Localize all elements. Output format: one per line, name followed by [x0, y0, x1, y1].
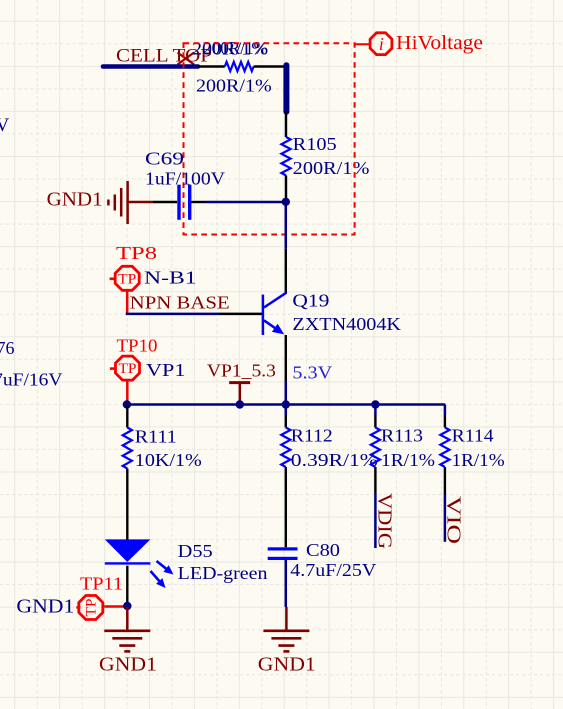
svg-text:200R/1%: 200R/1% [196, 76, 272, 96]
capacitor C69 [177, 185, 191, 220]
wire TP11 stem [104, 605, 125, 608]
LED D55 [105, 539, 151, 563]
label Q19 [292, 291, 329, 311]
label R113 [381, 426, 423, 446]
testpoint TP11 [76, 595, 102, 619]
ground GND1 below C80 [263, 607, 309, 651]
transistor Q19 [263, 293, 287, 335]
label R111 [135, 426, 177, 446]
value (clipped) 4.7uF/16V [0, 370, 63, 390]
svg-text:TP11: TP11 [80, 574, 123, 594]
no-ERC marker [178, 53, 195, 65]
label D55 value [178, 563, 268, 583]
wire VDIG [374, 493, 377, 548]
designator (clipped) C76 [0, 338, 15, 358]
pin R111.1 [126, 406, 128, 428]
resistor R113 [371, 428, 380, 468]
label R113 value [381, 450, 435, 470]
resistor R114 [440, 428, 449, 468]
compile-mask dashed box [184, 43, 355, 234]
node R105-C69 [282, 198, 290, 206]
power port VP1_5.3 bar [229, 383, 250, 404]
svg-text:200R/1%: 200R/1% [203, 38, 268, 58]
svg-text:R105: R105 [293, 134, 337, 154]
label R104 value overlap b [203, 38, 268, 58]
pin R114.2 [444, 467, 446, 494]
node rail-R111 [123, 400, 131, 408]
power port VP1_5.3 text [207, 361, 276, 381]
svg-text:LED-green: LED-green [178, 563, 268, 583]
svg-text:VIO: VIO [443, 496, 465, 544]
svg-text:1R/1%: 1R/1% [381, 450, 435, 470]
svg-text:VP1: VP1 [146, 360, 186, 380]
node rail-R112 [282, 400, 290, 408]
pin Q19 base [219, 313, 263, 316]
svg-text:GND1: GND1 [16, 596, 74, 618]
svg-text:C69: C69 [145, 149, 184, 169]
label R114 [452, 426, 494, 446]
svg-text:NPN BASE: NPN BASE [130, 293, 230, 313]
svg-text:5.3V: 5.3V [292, 363, 332, 383]
svg-text:1uF/100V: 1uF/100V [145, 169, 225, 189]
net label 5.3V [292, 363, 332, 383]
svg-text:GND1: GND1 [99, 653, 157, 675]
svg-text:TP: TP [118, 271, 136, 287]
label Q19 value [292, 314, 401, 334]
wire rail to R113 [374, 406, 377, 415]
svg-text:4.7uF/25V: 4.7uF/25V [290, 560, 376, 580]
svg-text:ZXTN4004K: ZXTN4004K [292, 314, 401, 334]
wire rail to R112 [285, 406, 288, 415]
power port GND1 text [47, 189, 103, 211]
label R105 [293, 134, 337, 154]
net label (clipped) ...V [0, 115, 10, 136]
resistor R105 [281, 137, 290, 175]
pin R105.2 [285, 175, 287, 200]
net label CELL_TOP [116, 46, 212, 67]
power port GND1 text mid [258, 653, 316, 675]
pin D55 cathode wire [126, 566, 128, 606]
label TP11 [80, 574, 123, 594]
label R111 value [135, 450, 202, 470]
svg-text:TP8: TP8 [116, 243, 157, 263]
wire TP8 stem [126, 291, 129, 314]
svg-text:R113: R113 [381, 426, 423, 446]
svg-text:D55: D55 [178, 541, 213, 561]
svg-text:TP: TP [84, 599, 100, 617]
resistor R104 [225, 62, 254, 71]
ground GND1 below LED [104, 607, 150, 651]
pin R114.1 [444, 415, 446, 428]
power port VDIG text [374, 493, 396, 549]
power port VIO text [443, 496, 465, 544]
svg-text:C80: C80 [306, 540, 340, 560]
label N-B1 [144, 268, 197, 288]
wire NPN_BASE [126, 313, 219, 316]
wire rail corner to R114 [444, 405, 447, 416]
label R104 value overlap a [192, 39, 268, 59]
label GND1 comment [16, 596, 74, 618]
resistor R111 [123, 428, 132, 469]
ground GND1 left [108, 181, 153, 224]
svg-text:4.7uF/16V: 4.7uF/16V [0, 370, 63, 390]
svg-text:GND1: GND1 [47, 189, 103, 211]
svg-text:N-B1: N-B1 [144, 268, 197, 288]
pin R113.1 [374, 415, 376, 428]
label R104 value [196, 76, 272, 96]
svg-text:R114: R114 [452, 426, 494, 446]
svg-text:i: i [379, 34, 384, 54]
testpoint TP8 [110, 266, 140, 290]
svg-text:1R/1%: 1R/1% [452, 450, 505, 470]
svg-text:C76: C76 [0, 338, 15, 358]
resistor R112 [281, 428, 290, 468]
label VP1 [146, 360, 186, 380]
svg-text:R112: R112 [291, 426, 333, 446]
svg-text:TP: TP [119, 361, 137, 377]
label C80 value [290, 560, 376, 580]
wire node to Q19 collector [285, 204, 288, 249]
pin R112.1 [285, 415, 287, 428]
pin R104.1 [198, 65, 225, 67]
pin R111.2 wire to LED [126, 469, 128, 540]
svg-text:0.39R/1%: 0.39R/1% [291, 450, 378, 470]
label TP10 [117, 335, 158, 355]
svg-text:HiVoltage: HiVoltage [396, 32, 483, 54]
svg-text:V: V [0, 115, 10, 136]
pin R112.2 wire to C80 [285, 467, 287, 547]
capacitor C80 [268, 547, 298, 560]
svg-text:TP10: TP10 [117, 335, 158, 355]
wire emitter to rail [285, 381, 288, 405]
directive HiVoltage octagon [370, 33, 392, 55]
thick wire CELL_TOP bus [103, 64, 198, 69]
node rail-VP1 [236, 400, 244, 408]
thick wire vertical [283, 65, 289, 112]
pin Q19 emitter [285, 335, 287, 381]
node LED-GND [123, 602, 131, 610]
label R112 value [291, 450, 378, 470]
svg-text:R111: R111 [135, 426, 177, 446]
pin R113.2 [374, 467, 376, 493]
svg-text:200R/1%: 200R/1% [293, 158, 370, 178]
pin Q19 collector [285, 249, 287, 293]
label C69 value [145, 169, 225, 189]
label R105 value [293, 158, 370, 178]
wire 5.3V rail [127, 403, 445, 406]
label D55 [178, 541, 213, 561]
wire VIO [444, 494, 447, 542]
pin R104.2 [254, 65, 284, 67]
pin R105.1 [285, 112, 287, 137]
svg-text:VP1_5.3: VP1_5.3 [207, 361, 276, 381]
svg-text:GND1: GND1 [258, 653, 316, 675]
testpoint TP10 [110, 356, 140, 380]
wire TP10 stem [126, 381, 129, 403]
power port GND1 text left [99, 653, 157, 675]
pin C69.1 [153, 201, 177, 203]
LED D55 arrows [151, 561, 174, 588]
label C80 [306, 540, 340, 560]
directive link line [355, 43, 371, 45]
label R114 value [452, 450, 505, 470]
svg-text:VDIG: VDIG [374, 493, 396, 549]
directive text HiVoltage [396, 32, 483, 54]
net label NPN_BASE [130, 293, 230, 313]
label R112 [291, 426, 333, 446]
wire C80 to ground [285, 560, 288, 607]
svg-text:10K/1%: 10K/1% [135, 450, 202, 470]
node rail-R113 [371, 400, 379, 408]
label C69 [145, 149, 184, 169]
svg-text:Q19: Q19 [292, 291, 329, 311]
wire C69 to node [206, 201, 286, 204]
label TP8 [116, 243, 157, 263]
pin C69.2 [191, 201, 205, 203]
